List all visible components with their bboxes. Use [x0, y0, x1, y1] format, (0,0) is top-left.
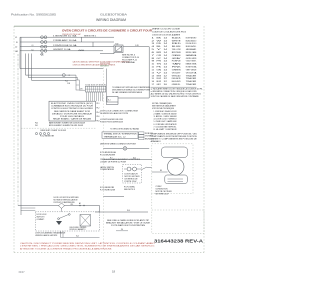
svg-text:GRAY: GRAY: [172, 57, 182, 60]
svg-text:14: 14: [152, 75, 155, 77]
svg-text:COMMUT.: COMMUT.: [37, 219, 46, 221]
svg-text:W-5: W-5: [133, 158, 136, 160]
bundle drop 1: [25, 54, 27, 76]
svg-text:RD/ROUGE: RD/ROUGE: [100, 63, 110, 65]
svg-text:GREEN: GREEN: [172, 69, 182, 71]
TOD component box: [114, 45, 123, 53]
svg-text:LOQUET DE PORTE DU FOUR: LOQUET DE PORTE DU FOUR: [100, 161, 127, 163]
svg-text:4: 4: [152, 46, 155, 48]
svg-text:13 14 15 16 17 18 19 20: 13 14 15 16 17 18 19 20: [85, 84, 106, 86]
svg-text:BROIL ELEMENT / ELEMENT DE GRI: BROIL ELEMENT / ELEMENT DE GRIL 3500W: [49, 125, 84, 127]
cam diamond symbol: [59, 203, 65, 208]
svg-text:TRACER: TRACER: [186, 77, 197, 80]
latch circle 2: [133, 167, 137, 171]
svg-text:P-75 W/BL: P-75 W/BL: [124, 187, 135, 189]
svg-text:OVEN VENT / EVENT DU FOUR: OVEN VENT / EVENT DU FOUR: [40, 130, 67, 132]
svg-text:NOIR NEGRO: NOIR NEGRO: [186, 37, 197, 39]
svg-text:GN/Y: GN/Y: [157, 84, 162, 86]
svg-text:JAUNE AMAR.: JAUNE AMAR.: [186, 48, 197, 51]
wire door lock: [18, 205, 100, 207]
svg-text:HAVANE CREMA: HAVANE CREMA: [186, 63, 197, 66]
connector P1 strip: [85, 86, 105, 92]
svg-text:CODE DE COULEUR DES FILS: CODE DE COULEUR DES FILS: [152, 32, 187, 34]
wire right drop: [148, 47, 150, 98]
svg-text:14: 14: [164, 55, 168, 57]
filled triangle indicator: [56, 221, 62, 225]
svg-text:SEE NOTE 4: SEE NOTE 4: [122, 54, 135, 56]
svg-text:P-76 BK/NOIR: P-76 BK/NOIR: [100, 187, 115, 189]
svg-text:60/07: 60/07: [19, 271, 26, 274]
svg-text:4,1: 4,1: [32, 45, 34, 47]
motor circle: [167, 159, 184, 176]
svg-text:SEE NOTE 1: SEE NOTE 1: [84, 35, 96, 37]
wire lower middle: [103, 196, 124, 198]
svg-text:4. DOOR LOCK / VERROU: 4. DOOR LOCK / VERROU: [154, 119, 178, 121]
frame bottom border: [14, 252, 204, 254]
svg-text:BL: BL: [157, 46, 162, 48]
wire L1: [20, 36, 114, 38]
svg-text:BLACK: BLACK: [172, 36, 182, 39]
svg-text:MOTORE 120V: MOTORE 120V: [156, 193, 169, 195]
svg-text:13 B: 13 B: [67, 83, 70, 85]
svg-text:5: 5: [152, 49, 155, 51]
wire pair upper: [21, 207, 36, 209]
svg-text:10: 10: [152, 64, 155, 66]
connector 2-pin box: [76, 80, 79, 90]
svg-text:14: 14: [164, 43, 168, 45]
junction jog row1-row2: [81, 37, 83, 42]
svg-text:GN/VERT: GN/VERT: [100, 66, 109, 68]
svg-text:9: 9: [152, 61, 155, 63]
wire with circle symbol: [103, 147, 149, 149]
svg-text:P3-6: P3-6: [97, 116, 100, 118]
stacked terminal boxes: [139, 132, 145, 134]
bundle drop 2: [28, 54, 30, 78]
latch circle 1: [127, 167, 131, 171]
svg-text:P-40: P-40: [35, 123, 38, 125]
svg-text:CONVECTION: CONVECTION: [156, 189, 168, 191]
svg-text:3: 3: [152, 43, 155, 45]
svg-text:14: 14: [164, 58, 168, 60]
svg-text:PINK: PINK: [172, 67, 182, 69]
svg-text:BLUE: BLUE: [172, 46, 182, 48]
svg-text:DOOR LOCK CONNECTOR / CONNECTE: DOOR LOCK CONNECTOR / CONNECTEUR: [100, 110, 139, 112]
svg-text:14: 14: [164, 37, 168, 39]
svg-text:VOIR FICHE TECHNIQUE: VOIR FICHE TECHNIQUE: [152, 108, 174, 110]
svg-text:ATTENZIONE: TOGLIERE LA CORREN: ATTENZIONE: TOGLIERE LA CORRENTE PRIMA D…: [20, 248, 113, 251]
svg-text:YELLOW: YELLOW: [172, 49, 181, 51]
wire mid lower W-5: [103, 158, 152, 160]
drop at right of door lock wire: [99, 206, 101, 213]
svg-text:P3-2: P3-2: [97, 107, 100, 109]
coil on GR wire right: [79, 49, 84, 52]
svg-text:TRACER: TRACER: [186, 80, 197, 83]
svg-text:WHITE-BLACK: WHITE-BLACK: [172, 74, 181, 77]
long bottom wire: [95, 211, 148, 213]
svg-text:CODIGO DE COLOR DEL ALAMBRE: CODIGO DE COLOR DEL ALAMBRE: [152, 33, 181, 36]
middle bordered box: [102, 132, 138, 138]
latch switch diagonal: [141, 167, 147, 170]
svg-text:W-1: W-1: [71, 204, 74, 206]
bottom right dashed box: [152, 210, 204, 234]
bundle run 3: [32, 79, 77, 81]
svg-text:RED-WHITE: RED-WHITE: [172, 78, 181, 80]
svg-text:P-24: P-24: [65, 80, 68, 82]
svg-text:MOTOR / MOTEUR: MOTOR / MOTEUR: [156, 191, 173, 193]
svg-text:13: 13: [152, 72, 155, 74]
svg-text:PLUG REF P-11: PLUG REF P-11: [122, 59, 137, 61]
svg-text:P-4: P-4: [110, 158, 113, 160]
bundle run 1: [26, 74, 77, 76]
oven control board box: [49, 101, 96, 121]
svg-text:VIOLET: VIOLET: [172, 72, 182, 74]
small relay box: [107, 97, 118, 103]
switch symbol in box: [59, 215, 69, 219]
svg-text:P-70 RD/ROUGE: P-70 RD/ROUGE: [100, 152, 116, 154]
left chassis dash-dot line: [17, 54, 19, 206]
svg-text:UNLOCKED / DEVER-: UNLOCKED / DEVER-: [70, 227, 88, 229]
svg-text:PURPLE: PURPLE: [172, 61, 182, 63]
svg-text:P-41: P-41: [35, 125, 38, 127]
svg-text:NARANJA: NARANJA: [186, 54, 197, 57]
svg-text:14: 14: [164, 52, 168, 54]
svg-text:P-77 RD/ROUGE: P-77 RD/ROUGE: [100, 190, 115, 192]
svg-text:15: 15: [152, 78, 155, 80]
wire stub under box: [100, 53, 114, 55]
svg-text:BK/W: BK/W: [157, 81, 162, 83]
svg-text:W: W: [157, 40, 162, 42]
svg-text:DE VERROU DE: DE VERROU DE: [125, 178, 138, 180]
svg-text:CONTROL ELECTRONICO DEL HORNO: CONTROL ELECTRONICO DEL HORNO: [51, 108, 94, 110]
motor assembly dashed box: [152, 144, 193, 194]
svg-text:VIOLET MOR.: VIOLET MOR.: [186, 61, 197, 63]
motor inner wires: [168, 178, 184, 180]
svg-text:P-52 BK/NOIR: P-52 BK/NOIR: [40, 136, 54, 138]
svg-text:WHITE: WHITE: [172, 40, 182, 42]
svg-text:BLACK-WHITE: BLACK-WHITE: [172, 80, 181, 83]
dashed divider under board: [21, 127, 96, 129]
svg-text:316443238 REV-A: 316443238 REV-A: [154, 239, 203, 244]
svg-text:Publication No. 5995561585: Publication No. 5995561585: [11, 12, 57, 16]
mid solid vertical: [105, 69, 107, 105]
connector pin drops: [85, 92, 87, 101]
bottom wire A-2: [61, 236, 100, 238]
svg-text:BRUN CAFE: BRUN CAFE: [186, 51, 197, 54]
latch wire through circles: [124, 168, 141, 170]
svg-text:2: 2: [152, 40, 155, 42]
terminal block circles row4: [41, 49, 44, 52]
svg-text:14: 14: [164, 40, 168, 42]
terminal block circles row2: [41, 41, 44, 44]
left bus wire B: [20, 37, 22, 215]
lock cam rect with X: [80, 215, 91, 227]
wire N: [20, 41, 114, 43]
motor upper rounded box: [162, 147, 188, 158]
svg-text:TRACER: TRACER: [186, 74, 197, 77]
svg-text:F-20: F-20: [135, 45, 138, 47]
svg-text:14: 14: [164, 72, 168, 74]
svg-text:ROSE ROSA: ROSE ROSA: [186, 66, 197, 69]
svg-text:L'ENTRETIEN. / PRECAUCION: DES: L'ENTRETIEN. / PRECAUCION: DESCONECTE EL…: [20, 245, 156, 248]
svg-text:17: 17: [152, 84, 155, 86]
wire L2: [20, 46, 149, 48]
svg-text:7: 7: [152, 55, 155, 57]
terminal block circles row3: [41, 45, 44, 48]
svg-text:BROWN: BROWN: [172, 52, 182, 54]
frame top border: [14, 25, 199, 27]
svg-text:WIRE COLOR CODE: WIRE COLOR CODE: [152, 29, 181, 31]
svg-text:14: 14: [164, 49, 168, 51]
svg-text:THERMIQUE N.C. L2: THERMIQUE N.C. L2: [104, 136, 126, 138]
svg-text:MOTOR / MOTEUR: MOTOR / MOTEUR: [125, 176, 140, 178]
svg-text:W/BK: W/BK: [157, 75, 162, 77]
svg-text:14: 14: [164, 46, 168, 48]
svg-text:6,1: 6,1: [32, 49, 34, 51]
inline component on run1: [62, 74, 65, 77]
svg-text:14: 14: [164, 61, 168, 63]
svg-text:ELECTRONIC OVEN CONTROL (EOC): ELECTRONIC OVEN CONTROL (EOC): [51, 103, 94, 105]
svg-text:BK: BK: [160, 170, 162, 172]
svg-text:12: 12: [164, 75, 168, 77]
svg-text:K-1: K-1: [108, 99, 111, 101]
svg-text:14: 14: [164, 64, 168, 66]
svg-text:TRACER: TRACER: [186, 83, 197, 86]
wire pair lower: [21, 209, 36, 211]
diamond to box stub: [61, 208, 63, 211]
svg-text:GRIS GRIS: GRIS GRIS: [186, 58, 197, 60]
right column dashed link: [151, 194, 153, 211]
frame left border: [13, 26, 15, 252]
svg-text:8: 8: [152, 58, 155, 60]
svg-text:CONNECTOR P-10: CONNECTOR P-10: [122, 57, 139, 59]
svg-text:14: 14: [164, 69, 168, 71]
svg-text:VERT VERDE: VERT VERDE: [186, 69, 197, 71]
wire from relay to right: [118, 97, 149, 99]
svg-text:11: 11: [152, 67, 155, 69]
frame right border: [203, 26, 205, 252]
junction dots door lock wire: [80, 205, 81, 206]
svg-text:1: 1: [152, 37, 155, 39]
svg-text:P3-1: P3-1: [97, 103, 100, 105]
table underline: [151, 86, 197, 88]
svg-text:PORTE 120V: PORTE 120V: [125, 181, 137, 183]
svg-text:12: 12: [164, 78, 168, 80]
svg-text:DOOR LOCK MOTOR & SWITCHES: DOOR LOCK MOTOR & SWITCHES: [54, 197, 79, 199]
svg-text:12: 12: [152, 69, 155, 71]
bundle run 2: [29, 77, 78, 79]
svg-text:12: 12: [164, 81, 168, 83]
svg-text:P-9: P-9: [121, 229, 123, 231]
svg-text:SEE NOTE 3: SEE NOTE 3: [124, 189, 135, 191]
svg-text:RED: RED: [172, 43, 182, 45]
svg-text:DOOR LOCK: DOOR LOCK: [37, 214, 47, 216]
svg-text:BLANC BLANCO: BLANC BLANCO: [186, 39, 197, 42]
svg-text:POSITION / POSITION DEVERROUIL: POSITION / POSITION DEVERROUILLEE: [100, 122, 123, 124]
wire into relay: [106, 104, 118, 106]
latch motor dashed box: [123, 164, 142, 183]
svg-text:GREEN-YEL.: GREEN-YEL.: [172, 84, 181, 86]
long wire to middle: [20, 68, 103, 70]
svg-text:ORANGE: ORANGE: [172, 54, 182, 57]
middle dashed separator: [102, 65, 104, 251]
svg-text:3. BROIL / GRIL 3000W: 3. BROIL / GRIL 3000W: [154, 116, 178, 118]
svg-text:BLEU AZUL: BLEU AZUL: [186, 45, 197, 48]
svg-text:14: 14: [164, 67, 168, 69]
connector stubs below box: [60, 231, 62, 237]
small underline: [116, 230, 128, 232]
svg-text:P-71 BK/NOIR: P-71 BK/NOIR: [100, 155, 116, 157]
svg-text:DENOTES WIRING CONNECTION POIN: DENOTES WIRING CONNECTION POINT: [100, 143, 136, 145]
svg-text:6: 6: [152, 52, 155, 54]
svg-text:CAUTION: DISCONNECT POWER BEFO: CAUTION: DISCONNECT POWER BEFORE SERVICI…: [20, 242, 156, 245]
ground symbol: [41, 52, 43, 54]
svg-text:OVEN CIRCUIT // CIRCUITS DE CU: OVEN CIRCUIT // CIRCUITS DE CUISINIERE /…: [62, 29, 152, 32]
svg-text:RD/W: RD/W: [157, 78, 162, 80]
svg-text:CONV: CONV: [156, 186, 162, 188]
motor feed wire: [152, 171, 168, 173]
terminal block circles row1: [41, 36, 44, 39]
terminal circles row: [35, 133, 37, 135]
junction jog row2-row3: [92, 42, 94, 47]
door lock dashed box: [35, 212, 99, 231]
bundle drop 3: [31, 54, 33, 81]
wire GR: [20, 50, 103, 52]
svg-text:VIOLETA: VIOLETA: [186, 71, 198, 74]
svg-text:LOCK SWITCH SHOWN IN UNLOCKED: LOCK SWITCH SHOWN IN UNLOCKED: [100, 119, 124, 121]
svg-text:COMPONENTS SHOWN IN OFF POSITI: COMPONENTS SHOWN IN OFF POSITION / LES: [151, 133, 198, 135]
svg-text:16: 16: [152, 81, 155, 83]
motor lower rounded box: [165, 175, 188, 184]
svg-text:8. HI-LIMIT / LIMITEUR: 8. HI-LIMIT / LIMITEUR: [154, 129, 178, 131]
svg-text:GLEB30T9DBA: GLEB30T9DBA: [100, 12, 127, 16]
svg-text:W-6: W-6: [127, 210, 130, 212]
svg-text:ROUGE ROJO: ROUGE ROJO: [186, 43, 197, 45]
svg-text:WIRING DIAGRAM: WIRING DIAGRAM: [96, 18, 126, 22]
svg-text:SWITCH /: SWITCH /: [37, 216, 46, 218]
svg-text:10: 10: [164, 84, 168, 86]
svg-text:18: 18: [112, 269, 116, 273]
wire box to strip: [79, 89, 85, 91]
